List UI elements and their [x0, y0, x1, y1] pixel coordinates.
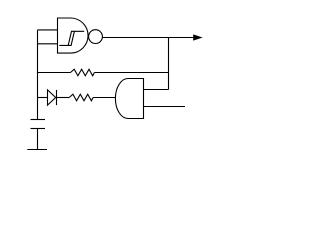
U1 hysteresis symbol	[59, 31, 84, 45]
wire: diode row left lead	[38, 97, 48, 99]
capacitor C1 bottom plate	[31, 128, 46, 130]
wire: feedback row right lead to vertical	[94, 72, 168, 74]
wire: R2 to U2 output	[93, 97, 115, 99]
schmitt NAND gate U1 body	[58, 18, 89, 53]
wire: C1 to bottom plate	[37, 129, 39, 150]
wire: U2 bottom input stub	[144, 106, 186, 108]
diode D1	[48, 90, 57, 105]
wire: U2 top input	[144, 89, 169, 91]
U1 output bubble	[89, 30, 103, 44]
capacitor C1 top plate	[31, 119, 46, 121]
wire: U1 output to arrow	[102, 37, 201, 39]
wire: U1 bottom input	[38, 43, 58, 45]
output arrow	[193, 34, 202, 40]
capacitor C2 bottom plate (ground bar)	[27, 149, 47, 151]
wire: vertical drop from output line to U2 top input	[168, 38, 170, 90]
resistor R2	[69, 94, 93, 101]
resistor R1	[71, 69, 95, 76]
AND gate U2 body (facing left)	[115, 79, 143, 119]
wire: U1 top input	[38, 29, 58, 31]
wire: feedback row left lead	[38, 72, 71, 74]
wire: diode to R2	[57, 97, 70, 99]
wire: input bus vertical	[37, 30, 39, 120]
